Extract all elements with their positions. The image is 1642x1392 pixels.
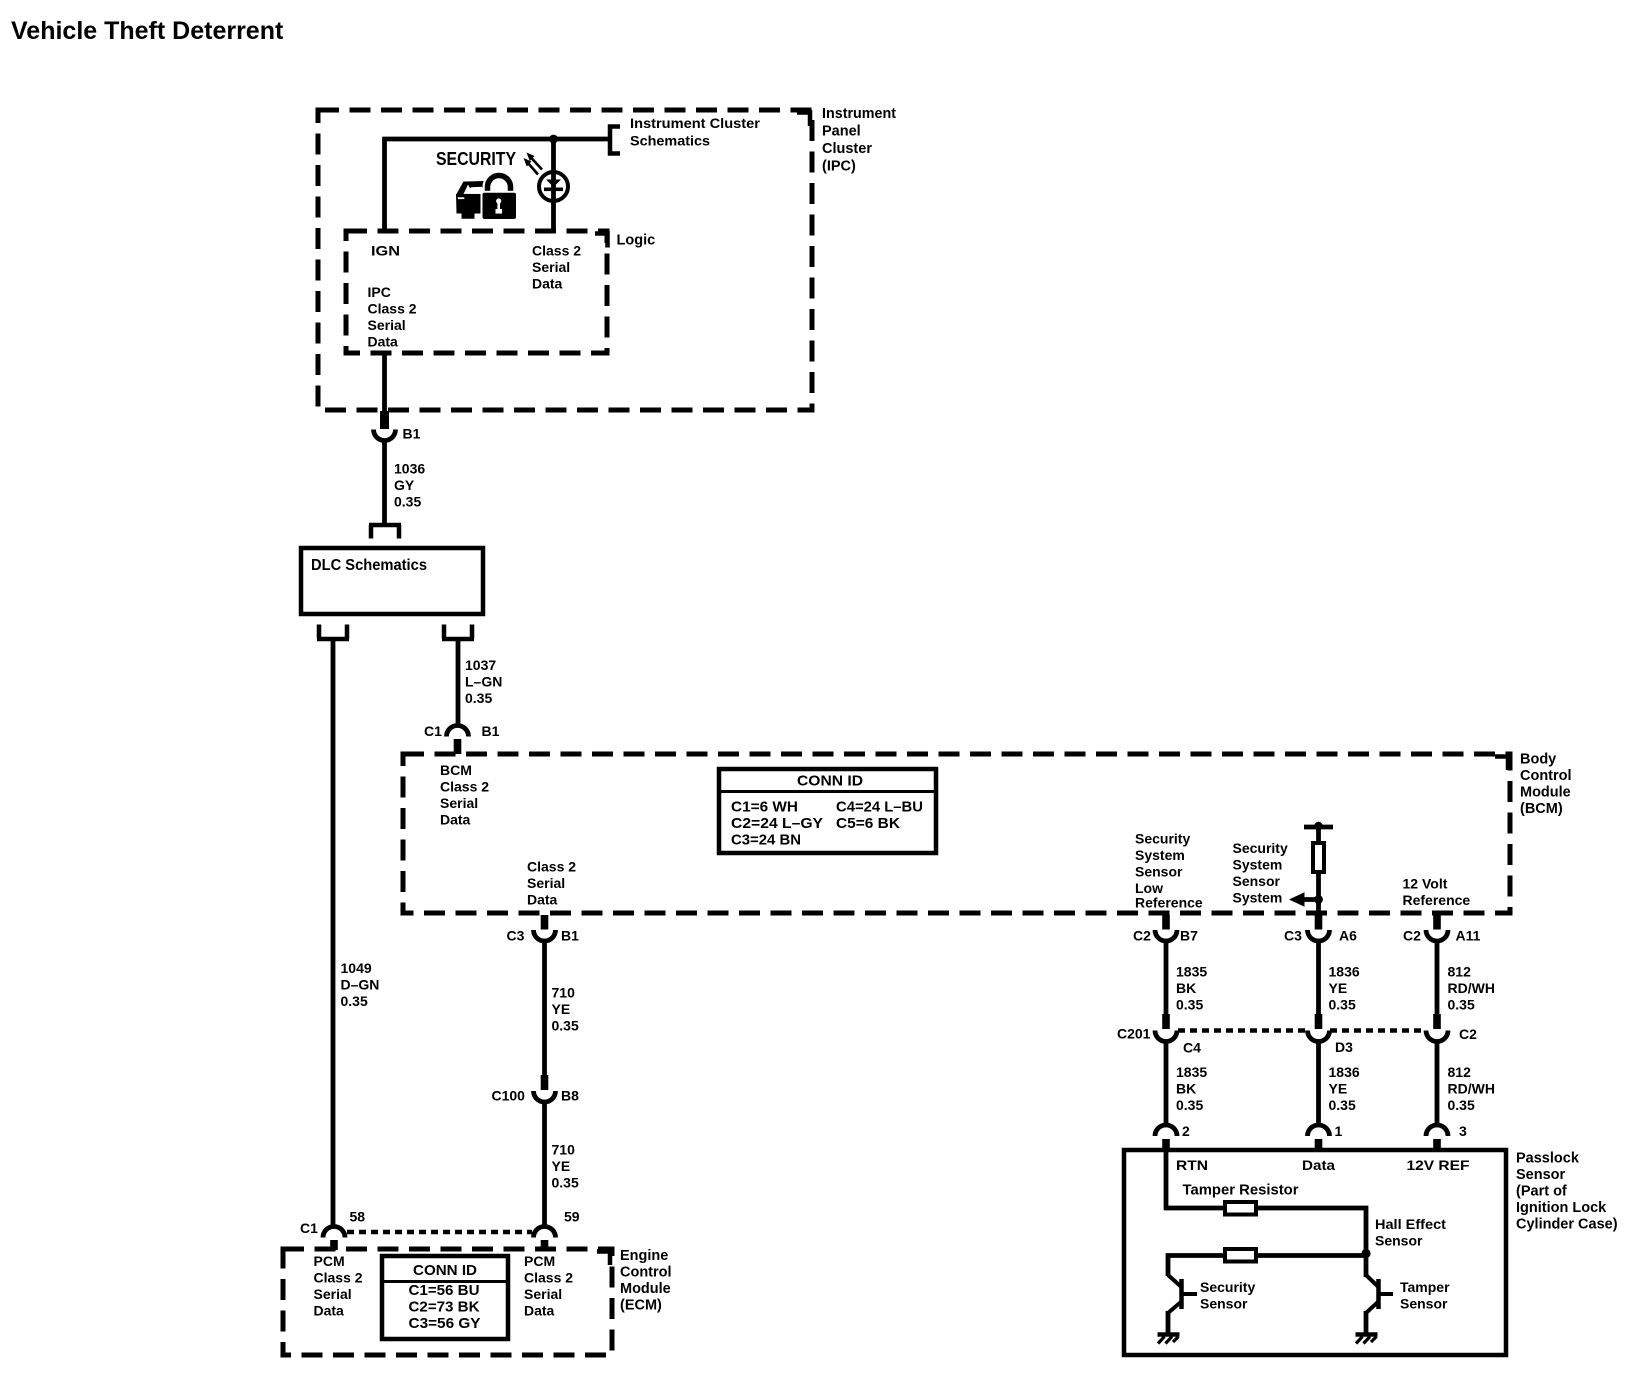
svg-text:B1: B1: [482, 723, 500, 739]
svg-text:0.35: 0.35: [1448, 997, 1475, 1013]
svg-text:Class 2: Class 2: [314, 1270, 363, 1286]
svg-text:C2: C2: [1403, 928, 1421, 944]
wire class 2 serial data from BCM: [541, 915, 549, 930]
LED indicator lamp: [539, 172, 568, 201]
svg-text:YE: YE: [552, 1001, 571, 1017]
module-entry bracket DLC top: [369, 525, 401, 539]
svg-text:Sensor: Sensor: [1400, 1296, 1448, 1312]
svg-text:(BCM): (BCM): [1520, 801, 1563, 817]
connector arc pin 1: [1308, 1125, 1330, 1136]
label PCM Class 2 Serial Data (right): [524, 1253, 573, 1319]
svg-text:L–GN: L–GN: [465, 674, 502, 690]
label wire 1835 BK 0.35: [1176, 964, 1207, 1013]
label Tamper Sensor: [1400, 1279, 1450, 1312]
svg-text:Module: Module: [1520, 785, 1571, 801]
svg-text:Instrument: Instrument: [822, 106, 896, 122]
label Class 2 Serial Data (logic): [532, 243, 581, 292]
svg-text:Serial: Serial: [314, 1286, 352, 1302]
svg-text:Security: Security: [1135, 831, 1190, 847]
wire RTN down inside passlock: [1164, 1150, 1169, 1210]
wire Class 2 serial data vertical through LED: [551, 139, 556, 231]
svg-text:Passlock: Passlock: [1516, 1151, 1580, 1167]
svg-text:Class 2: Class 2: [524, 1270, 573, 1286]
svg-text:C1: C1: [300, 1220, 318, 1236]
logic box (dashed): [346, 231, 607, 353]
svg-text:CONN ID: CONN ID: [797, 773, 863, 790]
svg-text:Tamper Resistor: Tamper Resistor: [1183, 1182, 1299, 1199]
svg-text:C2=73 BK: C2=73 BK: [409, 1299, 480, 1316]
svg-text:(IPC): (IPC): [822, 159, 856, 175]
label wire 812 RD/WH 0.35: [1448, 964, 1495, 1013]
svg-text:812: 812: [1448, 964, 1472, 980]
node junction hall effect: [1361, 1249, 1370, 1258]
label wire 1836 YE 0.35: [1329, 964, 1360, 1013]
svg-text:System: System: [1233, 857, 1283, 873]
svg-text:12V REF: 12V REF: [1407, 1157, 1470, 1173]
icon security car with padlock: [456, 176, 518, 222]
svg-text:Class 2: Class 2: [440, 779, 489, 795]
wire 1835 BK lower: [1164, 1041, 1169, 1126]
svg-text:Data: Data: [368, 334, 399, 350]
svg-text:0.35: 0.35: [552, 1175, 579, 1191]
svg-text:0.35: 0.35: [1329, 1097, 1356, 1113]
svg-text:C2=24 L–GY: C2=24 L–GY: [731, 815, 823, 832]
svg-text:Logic: Logic: [617, 233, 656, 249]
ground security sensor: [1158, 1332, 1180, 1337]
svg-text:D3: D3: [1335, 1039, 1353, 1055]
svg-text:1835: 1835: [1176, 1064, 1207, 1080]
svg-text:0.35: 0.35: [465, 690, 492, 706]
wire 1049 D-GN long vertical: [331, 641, 336, 1225]
module box IPC (dashed): [318, 110, 812, 410]
svg-text:Engine: Engine: [620, 1248, 668, 1264]
svg-text:3: 3: [1459, 1123, 1467, 1139]
label wire 1835 BK 0.35: [1176, 1064, 1207, 1113]
svg-text:Tamper: Tamper: [1400, 1279, 1450, 1295]
label 12 Volt Reference: [1403, 876, 1471, 909]
wire to resistor: [1316, 827, 1321, 843]
svg-text:C1=56 BU: C1=56 BU: [409, 1282, 480, 1299]
svg-text:RD/WH: RD/WH: [1448, 1081, 1495, 1097]
label Security System Sensor System: [1233, 840, 1288, 906]
label wire 812 RD/WH 0.35: [1448, 1064, 1495, 1113]
label Security Sensor: [1200, 1279, 1255, 1312]
svg-text:YE: YE: [552, 1158, 571, 1174]
node junction at arrow: [1314, 895, 1323, 904]
svg-text:Sensor: Sensor: [1233, 873, 1281, 889]
svg-text:Data: Data: [314, 1303, 345, 1319]
svg-text:1049: 1049: [341, 960, 372, 976]
svg-text:Schematics: Schematics: [630, 133, 710, 149]
wire security sensor row: [1168, 1256, 1366, 1277]
label Body Control Module (BCM): [1520, 752, 1572, 818]
svg-text:12 Volt: 12 Volt: [1403, 876, 1448, 892]
wire 1836 YE lower: [1316, 1041, 1321, 1126]
svg-text:Cylinder Case): Cylinder Case): [1516, 1217, 1618, 1233]
svg-text:B7: B7: [1180, 928, 1198, 944]
svg-text:Data: Data: [440, 812, 471, 828]
label Hall Effect Sensor: [1375, 1216, 1446, 1249]
module box DLC Schematics: [301, 548, 483, 614]
label Passlock Sensor (Part of Ignition Lock Cylinder Case): [1516, 1151, 1618, 1233]
module box ECM (dashed): [283, 1249, 612, 1355]
connector arc C2/A11: [1426, 930, 1448, 941]
table CONN ID (ECM): [382, 1256, 508, 1339]
svg-text:1835: 1835: [1176, 964, 1207, 980]
label BCM Class 2 Serial Data: [440, 762, 489, 828]
label wire 710 YE 0.35: [552, 1142, 579, 1191]
corner bracket ECM label: [597, 1249, 610, 1265]
off-page bracket Instrument Cluster Schematics: [608, 125, 620, 156]
node junction at LED branch: [549, 135, 558, 144]
table CONN ID (BCM): [719, 769, 936, 853]
label Instrument Cluster Schematics: [630, 115, 761, 149]
module-exit bracket DLC bottom left: [317, 625, 349, 640]
connector C100/B8 inline: [541, 1075, 549, 1090]
connector arc C3/A6: [1308, 930, 1330, 941]
transistor tamper sensor: [1366, 1253, 1393, 1333]
svg-text:C2: C2: [1133, 928, 1151, 944]
svg-text:B1: B1: [561, 928, 579, 944]
svg-text:58: 58: [350, 1209, 366, 1225]
svg-text:A6: A6: [1339, 928, 1357, 944]
svg-text:Data: Data: [524, 1303, 555, 1319]
svg-text:System: System: [1135, 847, 1185, 863]
svg-text:Serial: Serial: [532, 259, 570, 275]
wire 812 RD/WH upper: [1435, 941, 1440, 1014]
corner bracket BCM label: [1495, 754, 1508, 770]
svg-text:Sensor: Sensor: [1135, 864, 1183, 880]
svg-text:RD/WH: RD/WH: [1448, 980, 1495, 996]
svg-text:Sensor: Sensor: [1516, 1167, 1566, 1183]
svg-text:YE: YE: [1329, 1081, 1348, 1097]
svg-text:Data: Data: [1302, 1157, 1335, 1173]
svg-text:0.35: 0.35: [552, 1018, 579, 1034]
svg-text:A11: A11: [1456, 928, 1481, 944]
svg-text:RTN: RTN: [1176, 1157, 1208, 1173]
svg-text:(ECM): (ECM): [620, 1298, 662, 1314]
svg-text:Serial: Serial: [440, 795, 478, 811]
svg-text:0.35: 0.35: [1176, 1097, 1203, 1113]
svg-text:Sensor: Sensor: [1200, 1296, 1248, 1312]
connector arc pin 3: [1426, 1125, 1448, 1136]
svg-text:Data: Data: [527, 892, 558, 908]
wire resistor to A6: [1316, 874, 1321, 913]
connector arc pin 2: [1155, 1125, 1177, 1136]
connector arc B1: [374, 430, 396, 441]
corner bracket IPC label: [797, 110, 810, 126]
svg-text:Cluster: Cluster: [822, 141, 872, 157]
label wire 1049 D-GN 0.35: [341, 960, 380, 1009]
svg-text:Panel: Panel: [822, 124, 861, 140]
svg-text:C5=6 BK: C5=6 BK: [836, 815, 900, 832]
svg-text:Security: Security: [1233, 840, 1288, 856]
svg-text:C201: C201: [1117, 1026, 1151, 1042]
label IPC Class 2 Serial Data: [368, 284, 417, 350]
svg-text:SECURITY: SECURITY: [436, 148, 517, 169]
dotted connector row PCM C1: [347, 1230, 532, 1235]
svg-text:CONN ID: CONN ID: [413, 1262, 477, 1279]
wire 1836 YE upper: [1316, 941, 1321, 1014]
module box BCM (dashed): [403, 754, 1510, 913]
svg-text:1036: 1036: [394, 461, 425, 477]
svg-text:BCM: BCM: [440, 762, 472, 778]
svg-text:59: 59: [564, 1209, 580, 1225]
module box Passlock Sensor: [1124, 1150, 1506, 1355]
resistor (BCM internal pull-up): [1313, 843, 1324, 872]
connector terminal bar into BCM: [454, 739, 462, 754]
svg-text:DLC Schematics: DLC Schematics: [311, 557, 427, 574]
connector arc pin 59: [534, 1227, 556, 1238]
wire horizontal top (IPC internal): [383, 137, 611, 142]
svg-text:0.35: 0.35: [1448, 1097, 1475, 1113]
resistor tamper: [1225, 1202, 1256, 1215]
svg-text:Data: Data: [532, 276, 563, 292]
svg-text:C4=24 L–BU: C4=24 L–BU: [836, 799, 923, 816]
svg-text:0.35: 0.35: [394, 494, 421, 510]
svg-text:B1: B1: [403, 426, 421, 442]
svg-text:BK: BK: [1176, 1081, 1196, 1097]
svg-text:B8: B8: [561, 1088, 579, 1104]
svg-text:Control: Control: [620, 1265, 672, 1281]
svg-text:C1: C1: [424, 723, 442, 739]
svg-text:Reference: Reference: [1135, 895, 1203, 911]
svg-text:PCM: PCM: [314, 1253, 345, 1269]
svg-text:Reference: Reference: [1403, 892, 1471, 908]
connector arc C1/B1 at BCM: [447, 726, 469, 737]
svg-text:GY: GY: [394, 477, 415, 493]
svg-text:Class 2: Class 2: [368, 301, 417, 317]
svg-text:C2: C2: [1459, 1026, 1477, 1042]
svg-text:Vehicle Theft Deterrent: Vehicle Theft Deterrent: [11, 17, 284, 45]
svg-text:C1=6 WH: C1=6 WH: [731, 799, 798, 816]
transistor security sensor: [1168, 1275, 1197, 1333]
connector terminal bar A11: [1433, 915, 1441, 930]
wire 1835 BK upper: [1164, 941, 1169, 1014]
connector terminal bar A6: [1315, 915, 1323, 930]
svg-text:PCM: PCM: [524, 1253, 555, 1269]
svg-text:Instrument Cluster: Instrument Cluster: [630, 115, 761, 131]
svg-text:0.35: 0.35: [341, 993, 368, 1009]
module-exit bracket DLC bottom right: [442, 625, 474, 640]
svg-text:Control: Control: [1520, 768, 1572, 784]
label wire 1836 YE 0.35: [1329, 1064, 1360, 1113]
wire 710 YE upper: [542, 941, 547, 1075]
connector arc pin 58: [323, 1227, 345, 1238]
svg-text:Security: Security: [1200, 1279, 1255, 1295]
svg-text:Class 2: Class 2: [532, 243, 581, 259]
svg-text:C4: C4: [1183, 1040, 1201, 1056]
wire tamper resistor row: [1164, 1208, 1366, 1254]
corner bracket Logic label: [595, 231, 608, 248]
connector terminal B1 (bar): [380, 411, 389, 429]
connector arc C3/B1: [534, 930, 556, 941]
svg-text:YE: YE: [1329, 980, 1348, 996]
svg-text:(Part of: (Part of: [1516, 1184, 1567, 1200]
svg-text:Sensor: Sensor: [1375, 1233, 1423, 1249]
svg-text:Body: Body: [1520, 752, 1556, 768]
svg-text:System: System: [1233, 890, 1283, 906]
LED emission arrows: [524, 153, 543, 175]
label wire 1037 L-GN 0.35: [465, 657, 502, 706]
label Instrument Panel Cluster (IPC): [822, 106, 896, 175]
wire IPC class 2 serial data down to B1: [382, 353, 387, 411]
svg-text:Hall Effect: Hall Effect: [1375, 1216, 1446, 1232]
wire IGN vertical (IPC internal): [382, 137, 387, 231]
svg-text:1836: 1836: [1329, 1064, 1360, 1080]
svg-text:710: 710: [552, 985, 576, 1001]
connector C201 row: [1155, 1014, 1448, 1042]
wire 1036 GY: [382, 441, 387, 525]
svg-text:2: 2: [1182, 1123, 1190, 1139]
svg-text:Ignition Lock: Ignition Lock: [1516, 1200, 1607, 1216]
svg-text:C3=24 BN: C3=24 BN: [731, 832, 801, 849]
ground tamper sensor: [1356, 1332, 1378, 1337]
svg-text:C3: C3: [1284, 928, 1302, 944]
svg-text:BK: BK: [1176, 980, 1196, 996]
svg-text:0.35: 0.35: [1176, 997, 1203, 1013]
svg-text:1836: 1836: [1329, 964, 1360, 980]
svg-text:C3: C3: [507, 928, 525, 944]
label wire 1036 GY 0.35: [394, 461, 425, 510]
label wire 710 YE 0.35: [552, 985, 579, 1034]
svg-text:1037: 1037: [465, 657, 496, 673]
wire 1037 L-GN: [456, 641, 461, 726]
connector terminal bar B7: [1162, 915, 1170, 930]
svg-text:Serial: Serial: [524, 1286, 562, 1302]
wire 710 YE lower: [542, 1102, 547, 1228]
label Security System Sensor Low Reference: [1135, 831, 1203, 911]
svg-text:710: 710: [552, 1142, 576, 1158]
svg-text:Module: Module: [620, 1281, 671, 1297]
svg-text:C100: C100: [492, 1088, 526, 1104]
svg-text:C3=56 GY: C3=56 GY: [409, 1315, 481, 1332]
svg-text:Serial: Serial: [527, 875, 565, 891]
svg-text:1: 1: [1335, 1123, 1343, 1139]
svg-text:Serial: Serial: [368, 317, 406, 333]
label Class 2 Serial Data (BCM bottom): [527, 859, 576, 908]
svg-text:D–GN: D–GN: [341, 977, 380, 993]
svg-text:IPC: IPC: [368, 284, 391, 300]
arrow security system sensor: [1302, 897, 1319, 902]
label PCM Class 2 Serial Data (left): [314, 1253, 363, 1319]
power rail symbol (BCM internal): [1304, 825, 1333, 830]
svg-text:Class 2: Class 2: [527, 859, 576, 875]
resistor security: [1225, 1249, 1256, 1262]
connector arc C2/B7: [1155, 930, 1177, 941]
svg-text:0.35: 0.35: [1329, 997, 1356, 1013]
label Engine Control Module (ECM): [620, 1248, 672, 1314]
wire 812 RD/WH lower: [1435, 1041, 1440, 1126]
svg-text:IGN: IGN: [371, 243, 400, 259]
svg-text:812: 812: [1448, 1064, 1472, 1080]
